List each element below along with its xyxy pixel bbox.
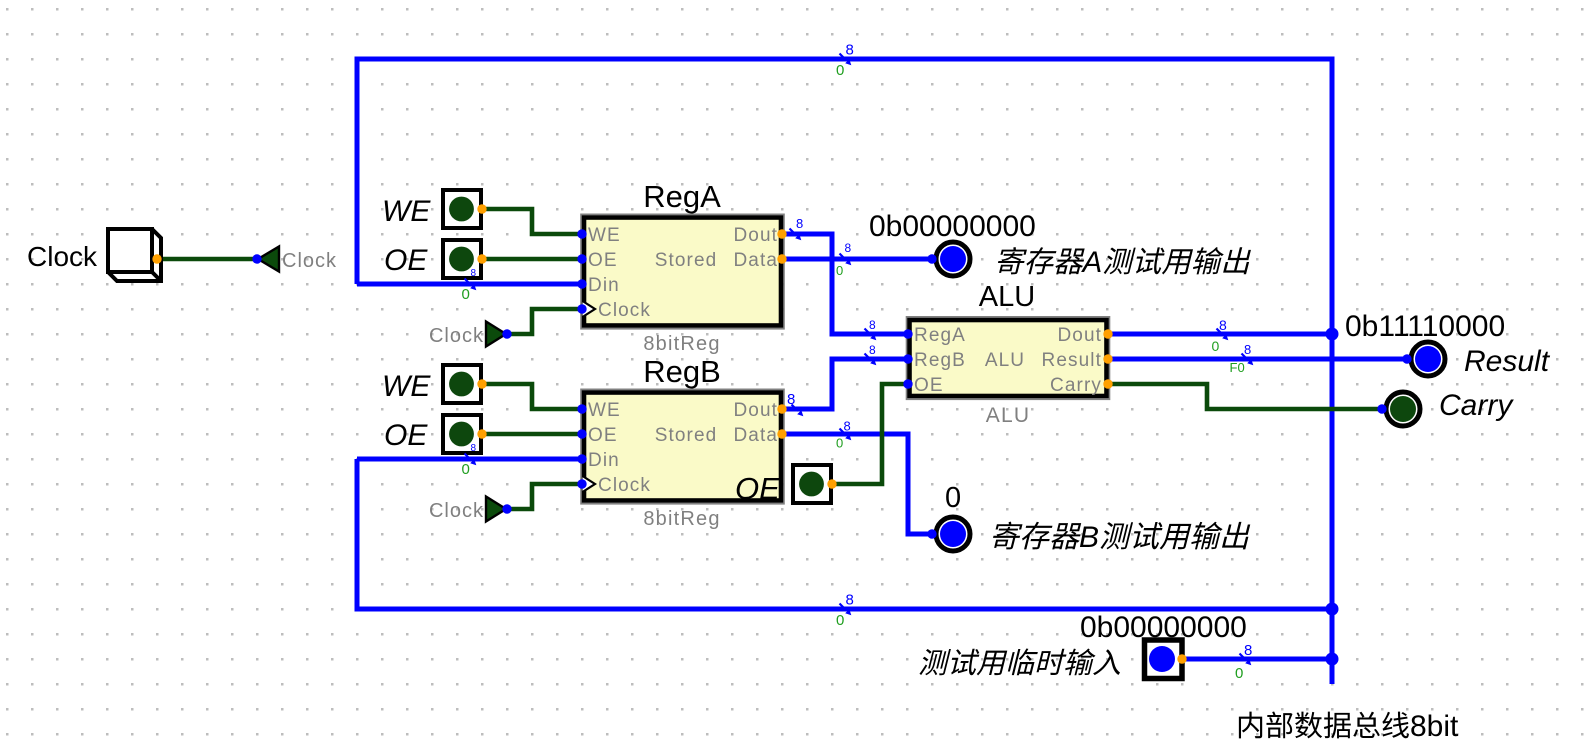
bus width marker RegB Dout 8 bbox=[792, 405, 799, 412]
wire bus to RegB Din (8-bit bus) bbox=[357, 457, 582, 462]
bus width marker ALU RegA input 8 bbox=[865, 329, 872, 336]
wire OE button A to RegA OE (1-bit) bbox=[482, 257, 582, 262]
svg-text:F0: F0 bbox=[1230, 360, 1245, 375]
svg-text:OE: OE bbox=[384, 419, 428, 452]
svg-text:RegA: RegA bbox=[643, 179, 721, 214]
label 内部数据总线8bit bbox=[1239, 712, 1262, 739]
junction: bottom bus joins right riser bbox=[1326, 603, 1339, 616]
svg-text:0: 0 bbox=[836, 62, 844, 79]
bus width marker temp input 8 bbox=[1240, 654, 1247, 661]
tunnel Clock (RegA side) bbox=[486, 322, 506, 347]
svg-text:8: 8 bbox=[787, 391, 795, 408]
svg-text:8: 8 bbox=[1244, 342, 1251, 357]
register RegA (8bitReg subcircuit) bbox=[581, 214, 784, 328]
button OE (RegA output enable) bbox=[443, 240, 481, 278]
svg-text:A: A bbox=[1081, 246, 1103, 279]
bus width marker RegB Din 8 bbox=[465, 454, 472, 461]
svg-text:ALU: ALU bbox=[986, 404, 1030, 427]
wire Clock tunnel to RegB Clock (1-bit) bbox=[507, 484, 582, 509]
svg-text:OE: OE bbox=[588, 250, 618, 271]
wire RegB Dout to ALU RegB (8-bit bus) bbox=[782, 359, 908, 409]
svg-text:0b00000000: 0b00000000 bbox=[869, 210, 1036, 243]
wire OE button B to RegB OE (1-bit) bbox=[482, 432, 582, 437]
svg-text:8: 8 bbox=[844, 419, 851, 434]
svg-text:0: 0 bbox=[462, 286, 470, 303]
bus width marker RegA Data 8 bbox=[840, 254, 847, 261]
svg-text:Clock: Clock bbox=[27, 241, 98, 272]
wire internal data bus: left-top riser, top run, right riser (8-bit bus) bbox=[357, 59, 1332, 684]
bus width marker top bus 8 bbox=[840, 54, 847, 61]
tunnel Clock (RegB side) bbox=[486, 497, 506, 522]
bus width marker RegB Data 8 bbox=[840, 429, 847, 436]
svg-text:RegB: RegB bbox=[914, 350, 966, 371]
bus width marker bottom bus 8 bbox=[840, 604, 847, 611]
svg-text:Clock: Clock bbox=[282, 250, 337, 272]
svg-text:8bitReg: 8bitReg bbox=[643, 333, 720, 355]
wire WE button B to RegB WE (1-bit) bbox=[482, 384, 582, 409]
svg-text:OE: OE bbox=[384, 244, 428, 277]
svg-text:WE: WE bbox=[588, 225, 621, 246]
bus width marker ALU RegB input 8 bbox=[865, 354, 872, 361]
svg-text:0: 0 bbox=[836, 436, 843, 451]
wire internal data bus: left-bottom riser and bottom run (8-bit bus) bbox=[357, 459, 1332, 609]
svg-text:ALU: ALU bbox=[979, 281, 1035, 313]
svg-text:8bitReg: 8bitReg bbox=[643, 508, 720, 530]
RegA clock chevron bbox=[583, 301, 596, 317]
svg-text:Result: Result bbox=[1464, 345, 1551, 378]
svg-text:8bit: 8bit bbox=[1410, 710, 1459, 743]
svg-text:RegA: RegA bbox=[914, 325, 966, 346]
wire ALU Result to Result pin (8-bit bus) bbox=[1108, 357, 1407, 362]
wire Clock source to tunnel (1-bit) bbox=[157, 257, 257, 262]
svg-text:Clock: Clock bbox=[429, 500, 484, 522]
wire RegA Dout to ALU RegA (8-bit bus) bbox=[782, 234, 908, 334]
svg-text:B: B bbox=[1079, 521, 1099, 554]
bus width marker ALU Result 8 bbox=[1242, 354, 1249, 361]
button WE (RegA write enable) bbox=[443, 190, 481, 228]
svg-text:OE: OE bbox=[914, 375, 944, 396]
svg-text:8: 8 bbox=[1219, 317, 1227, 333]
tunnel Clock (source side) bbox=[258, 247, 279, 272]
svg-text:Carry: Carry bbox=[1050, 375, 1102, 396]
svg-text:Clock: Clock bbox=[598, 475, 651, 496]
svg-text:8: 8 bbox=[869, 318, 876, 332]
svg-text:WE: WE bbox=[588, 400, 621, 421]
svg-text:0: 0 bbox=[1212, 338, 1220, 354]
label 寄存器B测试用输出 bbox=[990, 522, 1024, 550]
svg-text:Dout: Dout bbox=[733, 400, 778, 421]
svg-text:0: 0 bbox=[836, 612, 844, 629]
output pin Carry bbox=[1386, 392, 1420, 426]
svg-text:Result: Result bbox=[1042, 350, 1102, 371]
svg-text:Data: Data bbox=[733, 250, 778, 271]
label 测试用临时输入 bbox=[919, 649, 951, 675]
wire temp input pin to bus (8-bit bus) bbox=[1182, 657, 1332, 662]
wire ALU Carry to Carry pin (1-bit) bbox=[1108, 384, 1382, 409]
button OE (ALU output enable) bbox=[793, 465, 831, 503]
register RegB (8bitReg subcircuit) bbox=[581, 389, 784, 504]
svg-text:WE: WE bbox=[382, 370, 431, 403]
output pin register B test output bbox=[936, 517, 970, 551]
svg-text:8: 8 bbox=[796, 216, 803, 231]
junction: ALU Dout joins bus bbox=[1326, 328, 1339, 341]
wire RegB Data to test output pin B (8-bit bus) bbox=[782, 434, 932, 534]
RegB clock chevron bbox=[583, 476, 596, 492]
button WE (RegB write enable) bbox=[443, 365, 481, 403]
svg-text:8: 8 bbox=[846, 42, 854, 59]
junction: temp input joins bus bbox=[1326, 653, 1339, 666]
svg-text:0: 0 bbox=[945, 482, 961, 514]
port dots bbox=[577, 229, 586, 238]
svg-text:0b00000000: 0b00000000 bbox=[1080, 611, 1247, 644]
svg-text:8: 8 bbox=[471, 443, 477, 454]
svg-text:0b11110000: 0b11110000 bbox=[1345, 310, 1505, 343]
svg-text:OE: OE bbox=[588, 425, 618, 446]
output pin Result bbox=[1411, 342, 1445, 376]
bus width marker RegA Din 8 bbox=[465, 279, 472, 286]
svg-text:Dout: Dout bbox=[1057, 325, 1102, 346]
bus width marker RegA Dout 8 bbox=[790, 229, 797, 236]
svg-text:0: 0 bbox=[1235, 665, 1243, 682]
label 寄存器A测试用输出 bbox=[995, 247, 1028, 274]
input pin temp test input bbox=[1145, 640, 1183, 679]
wire ALU OE button to ALU OE (1-bit) bbox=[832, 384, 908, 484]
svg-text:Carry: Carry bbox=[1439, 389, 1514, 422]
svg-text:8: 8 bbox=[471, 268, 477, 279]
bus width marker ALU Dout 8 bbox=[1217, 329, 1224, 336]
svg-text:Clock: Clock bbox=[598, 300, 651, 321]
svg-text:Din: Din bbox=[588, 450, 620, 471]
wire ALU Dout to bus (8-bit bus) bbox=[1108, 332, 1332, 337]
svg-text:Din: Din bbox=[588, 275, 620, 296]
svg-text:Stored: Stored bbox=[655, 250, 718, 271]
output pin register A test output bbox=[936, 242, 970, 276]
button OE (RegB output enable) bbox=[443, 415, 481, 453]
wire WE button A to RegA WE (1-bit) bbox=[482, 209, 582, 234]
wire Clock tunnel to RegA Clock (1-bit) bbox=[507, 309, 582, 334]
svg-text:Data: Data bbox=[733, 425, 778, 446]
svg-text:WE: WE bbox=[382, 195, 431, 228]
wire bus to RegA Din (8-bit bus) bbox=[357, 282, 582, 287]
svg-text:0: 0 bbox=[836, 263, 843, 278]
svg-text:Dout: Dout bbox=[733, 225, 778, 246]
svg-text:8: 8 bbox=[1244, 642, 1252, 659]
clock generator Clock bbox=[108, 229, 161, 281]
ALU (arithmetic logic unit subcircuit) bbox=[907, 317, 1110, 400]
svg-text:0: 0 bbox=[462, 461, 470, 478]
svg-text:8: 8 bbox=[869, 343, 876, 357]
svg-text:Clock: Clock bbox=[429, 325, 484, 347]
wire RegA Data to test output pin A (8-bit bus) bbox=[782, 257, 932, 262]
svg-text:RegB: RegB bbox=[643, 354, 721, 389]
svg-text:Stored: Stored bbox=[655, 425, 718, 446]
svg-text:ALU: ALU bbox=[985, 350, 1025, 371]
svg-text:OE: OE bbox=[735, 471, 780, 506]
svg-text:8: 8 bbox=[846, 592, 854, 609]
svg-text:8: 8 bbox=[845, 241, 852, 255]
